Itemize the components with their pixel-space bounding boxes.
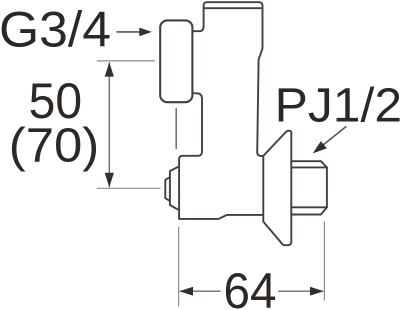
svg-text:PJ1/2: PJ1/2	[275, 79, 400, 133]
nipple facet line top	[291, 166, 327, 168]
svg-text:G3/4: G3/4	[0, 2, 111, 58]
cap bottom line	[204, 7, 262, 9]
outlet bump front face	[165, 177, 170, 201]
dimension line 50(70) vertical	[108, 63, 110, 187]
svg-text:(70): (70)	[9, 118, 100, 172]
body left side below nub down to bottom	[179, 93, 263, 219]
PJ1/2 leader arrow line	[319, 127, 346, 148]
flange	[263, 131, 291, 246]
dimension line 64 right segment	[279, 290, 323, 292]
arrowhead right	[310, 287, 324, 296]
arrowhead up	[105, 62, 114, 76]
witness line top (nub axis)	[97, 60, 154, 62]
G3/4 leader arrowhead	[139, 28, 152, 37]
outlet bump chamfered cylinder	[170, 166, 179, 210]
witness line bottom (outlet axis)	[97, 187, 160, 189]
G3/4 leader arrow line	[117, 31, 141, 33]
nipple facet line bottom	[291, 206, 327, 208]
nipple PJ1/2 outline	[291, 161, 327, 214]
body step to nub top	[193, 27, 204, 32]
witness line bottom-left (64 dim)	[178, 228, 180, 307]
PJ1/2 leader arrowhead	[313, 141, 327, 153]
centerline below nub	[175, 109, 177, 149]
svg-text:64: 64	[224, 263, 277, 310]
arrowhead left	[179, 287, 193, 296]
G3/4 nub	[160, 20, 192, 102]
valve body outline right side with top cap	[204, 2, 264, 156]
witness line bottom-right (64 dim)	[323, 222, 325, 300]
dimension line 64 left segment	[181, 290, 221, 292]
arrowhead down	[105, 173, 114, 187]
